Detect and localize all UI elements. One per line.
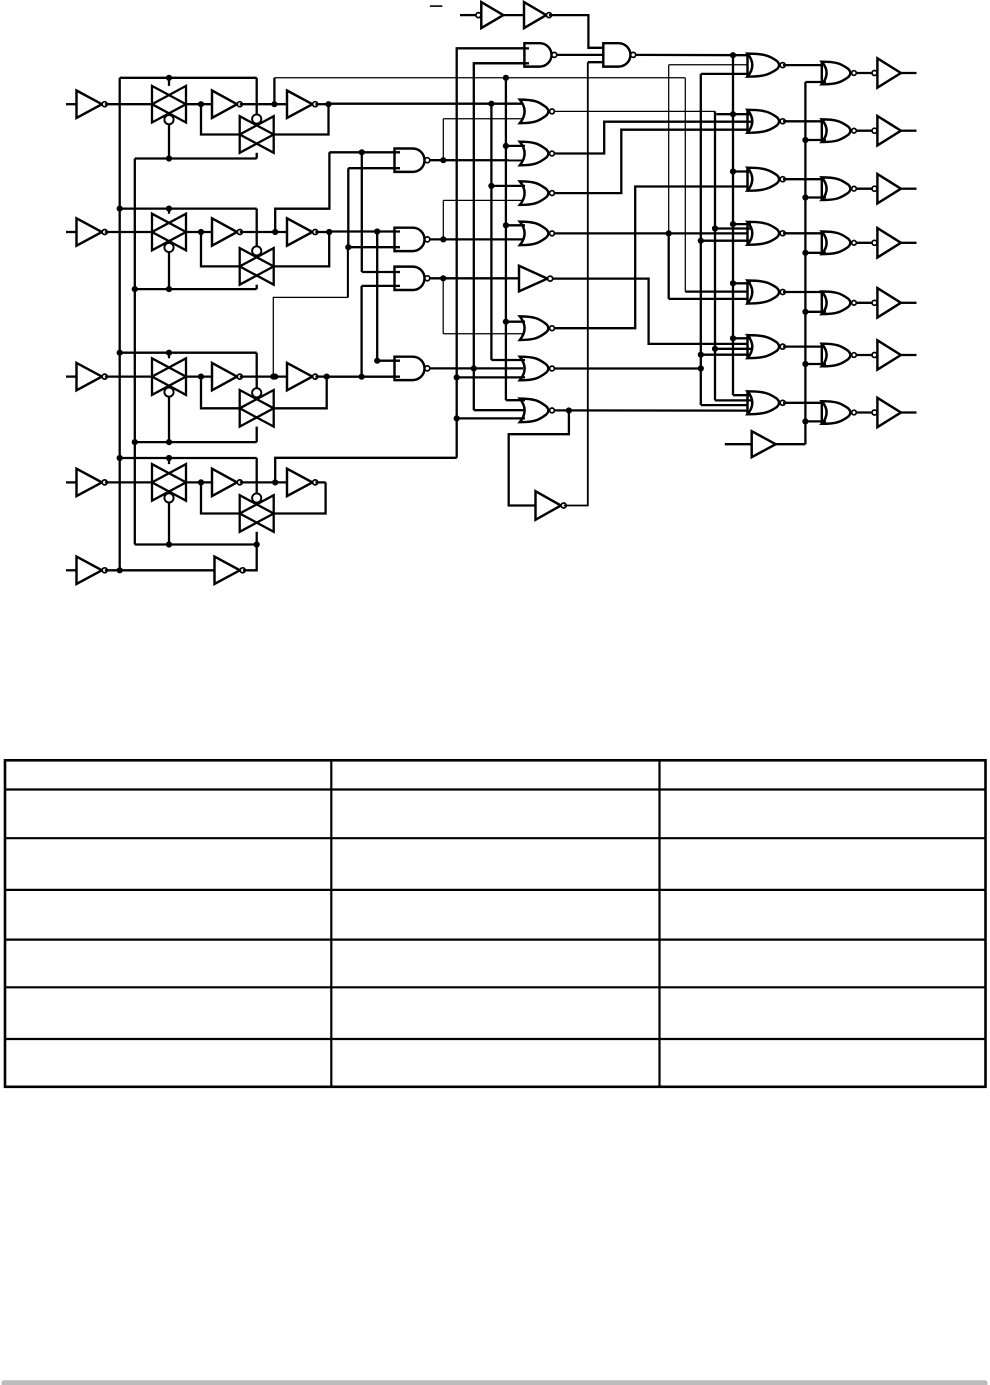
wire A2 input a xyxy=(716,113,751,115)
buffer output 6 xyxy=(872,353,877,358)
inverter input D2 xyxy=(77,218,102,245)
wire B7 output xyxy=(856,411,872,413)
wire latch4 node2 riser xyxy=(275,458,457,483)
wire NAND T1 output xyxy=(557,54,608,56)
wire B1 output xyxy=(856,72,872,74)
wire latch3 top control xyxy=(120,352,257,354)
wire output 3 xyxy=(901,188,917,190)
wire latch1 out to NOR1 xyxy=(329,103,524,105)
wire TG4b gate top stub xyxy=(256,458,258,494)
wire input D3 xyxy=(66,375,77,377)
wire A6 output xyxy=(783,345,823,347)
wire NAND T1 input b xyxy=(474,62,529,64)
wire NAND T1 input a xyxy=(457,47,529,49)
wire N1 input b xyxy=(348,167,400,169)
transmission gate TG1b xyxy=(240,116,274,153)
inverter latch3 output xyxy=(287,363,312,390)
wire A4 input d xyxy=(701,240,751,242)
nand gate T1 xyxy=(524,43,551,66)
wire TG1a output to inverter xyxy=(186,103,212,105)
wire input PH xyxy=(725,443,752,445)
wire bus N4out xyxy=(474,63,525,410)
wire D1 inverter to transmission gate xyxy=(105,103,152,105)
wire A7 input b xyxy=(715,399,751,401)
wire TG3b gate bottom stub xyxy=(256,427,258,443)
wire B2 output xyxy=(856,130,872,132)
wire TG4a gate bottom stub xyxy=(168,502,170,544)
wire NOR1 output xyxy=(555,110,715,112)
buffer output 5 xyxy=(872,300,877,305)
wire output 6 xyxy=(901,354,917,356)
transmission gate TG3b xyxy=(240,390,274,427)
wire input D2 xyxy=(66,231,77,233)
wire bus D4bar xyxy=(457,48,525,457)
wire latch2 bottom control xyxy=(135,288,257,290)
wire NOR7 input a xyxy=(491,359,525,361)
wire latch1 node2 to output inverter xyxy=(240,103,287,105)
nor gate A4 xyxy=(748,222,780,245)
inverter BL input xyxy=(476,13,481,18)
wire A5 input c xyxy=(669,298,748,300)
wire B7 input b xyxy=(805,420,826,422)
nor gate A2 xyxy=(748,110,780,133)
inverter input D3 xyxy=(77,363,102,390)
wire BL inverters xyxy=(503,14,524,16)
wire NOR3 output xyxy=(555,130,748,193)
transmission gate TG2b xyxy=(240,248,274,285)
nor gate A1 xyxy=(748,54,780,77)
wire A4 input b xyxy=(715,227,751,229)
inverter latch4 first xyxy=(212,469,237,496)
inverter latch2 output xyxy=(287,218,312,245)
wire inverter to bus xyxy=(564,62,588,505)
wire NOR7 input c xyxy=(457,376,525,378)
nor gate M1 xyxy=(520,100,549,124)
wire LD inverter to second inverter xyxy=(105,569,215,571)
wire latch1 node2 riser xyxy=(273,78,275,104)
wire bus NOR4out lower xyxy=(668,233,670,299)
wire A5 output xyxy=(783,291,823,293)
wire B5 output xyxy=(553,279,748,344)
junction latch2 output xyxy=(326,229,332,235)
wire output 7 xyxy=(901,411,917,413)
wire latch1 bottom control xyxy=(135,157,257,159)
wire latch1 top control xyxy=(120,77,257,79)
wire TG4a gate top stub xyxy=(168,458,170,464)
wire TG2a gate top stub xyxy=(168,209,170,214)
wire bus NOR4out upper xyxy=(668,65,670,234)
wire latch2 node2 to output inverter xyxy=(240,231,287,233)
inverter latch3 first xyxy=(212,363,237,390)
wire TG3a gate top stub xyxy=(168,353,170,359)
wire bus blank xyxy=(732,55,734,395)
wire A6 input a xyxy=(733,337,751,339)
inverter phase feedback xyxy=(536,491,561,520)
wire latch3 node2 riser xyxy=(273,247,347,376)
wire BL to NAND T2 xyxy=(549,15,604,48)
wire N3 out riser to NOR6 xyxy=(442,278,444,334)
buffer output 1 xyxy=(872,71,877,76)
wire N2 out riser to NOR3 xyxy=(442,200,444,239)
wire N3 input b xyxy=(362,285,400,287)
wire NOR8 output xyxy=(555,409,748,412)
wire output 1 xyxy=(901,72,917,74)
nor gate B5 xyxy=(822,292,851,315)
wire A6 input c xyxy=(715,348,751,350)
wire D2 inverter to transmission gate xyxy=(105,231,152,233)
wire input D4 xyxy=(66,481,77,483)
wire latch3 node2 to output inverter xyxy=(240,375,287,377)
wire bus D1bar xyxy=(505,78,507,400)
nor gate M7 xyxy=(520,357,549,381)
wire NAND T2 input c stub xyxy=(588,61,604,63)
buffer output 4 xyxy=(872,240,877,245)
wire D3 inverter to transmission gate xyxy=(105,375,152,377)
buffer output 7 xyxy=(872,410,877,415)
wire bus NOR1out xyxy=(714,111,716,400)
wire A7 input c xyxy=(701,404,748,406)
nand gate N4 xyxy=(395,357,425,380)
wire latch3 output node xyxy=(315,375,326,377)
wire bus D1 xyxy=(490,104,492,360)
inverter LD second xyxy=(215,557,240,584)
wire A1 input b xyxy=(669,64,748,66)
wire input LD xyxy=(66,569,77,571)
wire latch1 feedback xyxy=(274,104,328,134)
wire NOR8 input c xyxy=(457,417,525,419)
wire TG2a gate bottom stub xyxy=(168,252,170,289)
wire N2 input b xyxy=(348,246,400,248)
junction latch1 output xyxy=(325,101,331,107)
dash overbar xyxy=(430,5,442,7)
wire N2a/N4a riser xyxy=(376,232,378,361)
wire input D1 xyxy=(66,103,77,105)
inverter input D4 xyxy=(77,469,102,496)
wire TG4a output to inverter xyxy=(186,481,212,483)
wire bus NOR7out xyxy=(700,74,702,405)
wire A3 output xyxy=(783,178,823,180)
inverter input D1 xyxy=(77,91,102,118)
wire latch4 output node xyxy=(315,481,325,483)
wire TG2b gate bottom stub xyxy=(256,285,258,289)
wire bus D1bar right xyxy=(684,78,686,292)
wire NOR4 output xyxy=(555,232,748,234)
wire N4 output xyxy=(430,367,523,369)
wire latch2 node2 riser xyxy=(275,152,329,232)
wire B6 input b xyxy=(805,363,826,365)
wire latch2 feedback xyxy=(274,232,329,266)
nand gate N3 xyxy=(395,267,425,290)
wire PH buffer output xyxy=(776,443,806,445)
wire output 4 xyxy=(901,242,917,244)
wire NOR8 input b xyxy=(474,409,525,411)
wire TG2b gate top stub xyxy=(256,209,258,247)
wire NOR2 input a xyxy=(506,145,525,147)
wire NOR3 input a xyxy=(491,185,525,187)
wire latch4 feedback xyxy=(274,482,325,513)
wire A5 input a xyxy=(733,282,751,284)
nand gate T2 xyxy=(603,43,630,66)
wire B3 input b xyxy=(805,196,826,198)
wire NOR8 branch to inverter xyxy=(509,411,569,506)
inverter BL second xyxy=(524,2,546,28)
wire N1a/N3a riser xyxy=(361,152,363,272)
wire latch4 top control xyxy=(120,457,257,459)
footer bar xyxy=(2,1380,988,1385)
wire latch1 output node xyxy=(315,103,328,105)
wire TG1b gate top stub xyxy=(256,78,258,115)
wire TG2a output to inverter xyxy=(186,231,212,233)
wire bus PH xyxy=(804,82,806,444)
wire D4 inverter to transmission gate xyxy=(105,481,152,483)
wire latch2 output node xyxy=(315,231,329,233)
wire A1 output xyxy=(783,64,823,66)
wire TG1a gate bottom stub xyxy=(168,124,170,158)
wire TG3b gate top stub xyxy=(256,353,258,389)
wire A6 input d xyxy=(701,354,751,356)
inverter latch2 first xyxy=(212,218,237,245)
wire TG3a gate bottom stub xyxy=(168,397,170,443)
buffer output 2 xyxy=(872,128,877,133)
wire N1 output xyxy=(430,159,523,161)
wire NOR6 output xyxy=(555,187,748,329)
nor gate B4 xyxy=(822,232,851,255)
nor gate A3 xyxy=(748,168,780,191)
wire B3 output xyxy=(856,188,872,190)
wire NOR1 input b xyxy=(443,118,523,120)
nor gate M4 xyxy=(520,222,549,246)
wire B4 output xyxy=(856,242,872,244)
wire B6 output xyxy=(856,354,872,356)
wire N4 input b latch3 out xyxy=(327,376,400,378)
wire N4 input a xyxy=(377,360,400,362)
wire NOR7 output xyxy=(555,367,701,369)
inverter latch1 output xyxy=(287,91,312,118)
nor gate B6 xyxy=(822,344,851,367)
wire NOR4 input a xyxy=(506,224,525,226)
wire strobe bus phi1 xyxy=(119,78,121,571)
nand gate N2 xyxy=(395,228,425,251)
wire A2 input b into gate xyxy=(748,121,753,123)
nor gate A7 xyxy=(748,391,780,414)
wire N1 out riser to NOR1 xyxy=(442,119,444,160)
transmission gate TG2a xyxy=(152,214,186,251)
wire A7 input a xyxy=(733,394,751,396)
nor gate B2 xyxy=(822,119,851,142)
wire NOR8 input a xyxy=(506,399,525,401)
wire latch3 bottom control xyxy=(135,441,257,443)
wire TG1a gate top stub xyxy=(168,78,170,86)
nor gate M2 xyxy=(520,142,549,166)
nor gate B1 xyxy=(822,62,851,85)
junction latch3 output xyxy=(324,374,330,380)
nand gate N1 xyxy=(395,149,425,172)
wire N2 output xyxy=(430,238,523,240)
wire A1 input c xyxy=(701,73,748,75)
transmission gate TG4a xyxy=(152,464,186,501)
transmission gate TG4b xyxy=(240,495,274,532)
wire latch3 feedback xyxy=(274,377,326,409)
wire latch4 node2 to output inverter xyxy=(240,481,287,483)
wire latch2 top control xyxy=(120,207,257,209)
wire A3 input a xyxy=(733,170,751,172)
wire A2 output xyxy=(783,120,823,122)
wire N1 input a xyxy=(329,151,400,153)
table grid xyxy=(5,760,986,1087)
wire output 5 xyxy=(901,302,917,304)
wire strobe bus phi2 xyxy=(134,159,136,545)
wire NOR3 input b xyxy=(443,199,523,201)
wire B5 input b xyxy=(805,311,826,313)
wire B1 input b xyxy=(805,81,826,83)
buffer mid B5 xyxy=(519,266,547,292)
wire latch4 bottom control xyxy=(135,543,257,545)
wire N3 output xyxy=(430,277,521,279)
buffer output 3 xyxy=(872,186,877,191)
wire A5 input b xyxy=(685,290,747,292)
nor gate A6 xyxy=(748,335,780,358)
wire TG1b gate bottom stub xyxy=(256,153,258,159)
wire NOR6 input a xyxy=(506,321,525,323)
buffer PH xyxy=(752,431,776,457)
wire TG4b gate bottom stub xyxy=(256,532,258,545)
wire output 2 xyxy=(901,130,917,132)
wire NAND T2 output xyxy=(636,54,747,57)
wire A4 input a xyxy=(733,223,751,225)
wire A4 output xyxy=(783,232,823,234)
wire latch2 node1 to TG2b xyxy=(201,232,239,266)
wire N3 input a xyxy=(362,271,400,273)
wire D1bar line xyxy=(274,77,685,79)
wire B5 output xyxy=(856,302,872,304)
inverter latch4 output xyxy=(287,469,312,496)
nor gate M8 xyxy=(520,399,549,423)
wire B4 input b xyxy=(805,252,826,254)
wire LD second inverter output riser xyxy=(243,545,257,571)
wire A7 output xyxy=(783,402,823,404)
nor gate M3 xyxy=(520,181,549,205)
wire B2 input b xyxy=(805,139,826,141)
nor gate M6 xyxy=(520,316,549,340)
wire N2 input a xyxy=(329,230,400,232)
nor gate A5 xyxy=(748,281,780,304)
transmission gate TG3a xyxy=(152,358,186,395)
wire N1/N2 input b riser xyxy=(347,168,349,247)
wire latch3 node1 to TG3b xyxy=(201,377,239,409)
wire N3b riser xyxy=(360,286,362,377)
wire NOR6 input b xyxy=(443,333,523,335)
transmission gate TG1a xyxy=(152,86,186,123)
inverter LD input xyxy=(77,557,102,584)
wire input BL xyxy=(460,14,476,16)
nor gate B7 xyxy=(822,401,851,424)
inverter latch1 first xyxy=(212,91,237,118)
wire latch4 node1 to TG4b xyxy=(201,482,239,513)
wire TG3a output to inverter xyxy=(186,375,212,377)
wire NOR2 output xyxy=(555,122,748,154)
wire latch1 node1 to TG1b xyxy=(201,104,239,134)
wire riser to latch3 node2 xyxy=(347,247,349,297)
nor gate B3 xyxy=(822,177,851,200)
